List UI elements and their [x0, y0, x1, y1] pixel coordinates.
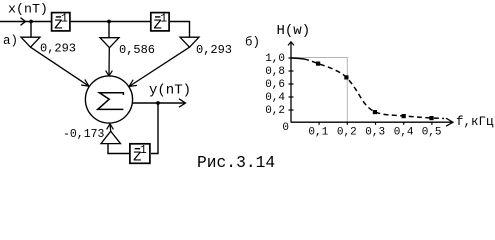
wire: z2 to right tap corner — [170, 22, 190, 38]
svg-text:0,6: 0,6 — [265, 79, 285, 91]
curve marker 0,5 — [429, 116, 433, 120]
y tick 0,4 — [289, 96, 294, 98]
amp triangle A2 (0,586) — [100, 38, 119, 48]
svg-text:x(nT): x(nT) — [8, 1, 48, 16]
svg-text:0,8: 0,8 — [265, 66, 285, 78]
arrow: amp A3 to summer — [129, 47, 190, 86]
wire: input — [0, 21, 52, 23]
svg-text:1,0: 1,0 — [265, 53, 285, 65]
svg-text:Рис.3.14: Рис.3.14 — [197, 153, 275, 172]
amp triangle A3 (0,293) — [180, 37, 199, 47]
svg-text:0,586: 0,586 — [119, 43, 155, 57]
y tick 0,6 — [289, 83, 294, 85]
delay block z^-1 U1 — [52, 12, 70, 33]
y tick 1,0 — [289, 57, 294, 59]
x tick 0,4 — [403, 122, 405, 125]
svg-text:б): б) — [245, 36, 260, 50]
x tick 0,1 — [318, 122, 320, 125]
wire: output — [132, 102, 184, 104]
y-axis — [288, 42, 294, 123]
svg-text:0,293: 0,293 — [196, 43, 232, 57]
wire: output node down to z3 — [151, 103, 158, 154]
svg-text:0,4: 0,4 — [265, 92, 285, 104]
amp triangle A4 (-0,173) — [101, 131, 121, 143]
x tick 0,3 — [375, 122, 377, 125]
svg-text:1: 1 — [140, 144, 147, 157]
delay block z^-1 U2 — [151, 12, 169, 33]
svg-text:f,кГц: f,кГц — [456, 115, 494, 129]
curve marker 0,4 — [402, 114, 406, 118]
wire: z3 to feedback amp — [108, 144, 130, 154]
svg-text:0,3: 0,3 — [365, 126, 385, 138]
curve marker 0,3 — [373, 110, 377, 114]
curve H(w) start segment — [292, 58, 305, 59]
svg-text:1: 1 — [160, 12, 167, 25]
curve H(w) dashed — [304, 59, 444, 119]
summer circle — [85, 76, 132, 123]
arrow: amp A2 to summer — [106, 48, 113, 76]
y tick 0,2 — [289, 109, 294, 111]
curve marker 0,1 — [316, 62, 320, 66]
input arrowhead — [21, 18, 26, 26]
node: input tap junction — [29, 20, 33, 24]
svg-text:0,5: 0,5 — [422, 126, 442, 138]
delay block z^-1 U3 (feedback) — [130, 144, 150, 166]
gray guide box at 0.2 / 1.0 — [292, 58, 348, 123]
svg-text:H(w): H(w) — [277, 23, 311, 39]
svg-text:0: 0 — [282, 122, 289, 134]
svg-text:0,2: 0,2 — [337, 126, 357, 138]
svg-text:-0,173: -0,173 — [63, 128, 105, 141]
wire: z1 to z2 — [70, 21, 151, 23]
svg-text:1: 1 — [61, 12, 68, 25]
node: output tap junction — [156, 101, 160, 105]
arrow: feedback amp to summer bottom — [107, 124, 114, 131]
node: middle tap junction — [107, 20, 111, 24]
curve marker 0,2 — [344, 75, 348, 79]
x tick 0,5 — [431, 122, 433, 125]
svg-text:y(nT): y(nT) — [149, 83, 191, 99]
wire: node to amp 0,293 — [30, 22, 32, 38]
svg-text:а): а) — [3, 34, 18, 48]
wire: node to amp 0,586 — [108, 22, 110, 38]
svg-text:0,2: 0,2 — [265, 105, 285, 117]
svg-text:0,1: 0,1 — [308, 126, 328, 138]
arrow: amp A1 to summer — [31, 47, 90, 86]
x-axis — [291, 118, 453, 126]
x tick 0,2 — [346, 122, 348, 125]
output arrowhead — [179, 99, 186, 107]
svg-text:0,293: 0,293 — [40, 42, 76, 56]
svg-text:0,4: 0,4 — [394, 126, 414, 138]
amp triangle A1 (0,293) — [21, 37, 40, 47]
y tick 0,8 — [289, 70, 294, 72]
sigma symbol — [98, 93, 124, 110]
